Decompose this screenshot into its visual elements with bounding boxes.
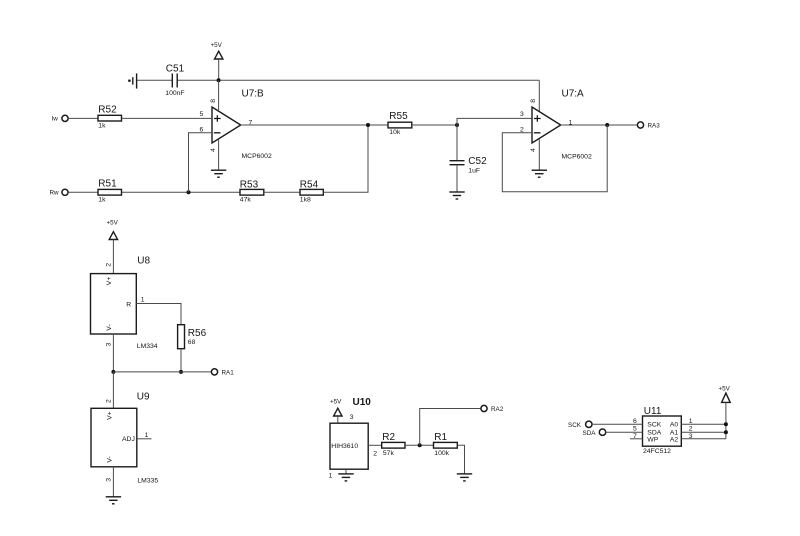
node Rw input terminal	[50, 189, 69, 196]
svg-text:WP: WP	[647, 436, 658, 443]
svg-text:2: 2	[106, 399, 113, 403]
svg-text:2: 2	[373, 450, 377, 457]
svg-text:R2: R2	[382, 432, 395, 443]
junction output U7:A	[605, 123, 609, 127]
ground (below C52)	[449, 192, 464, 199]
wire R54 to output node	[323, 125, 368, 192]
wire feedback loop U7:A	[502, 125, 607, 192]
svg-text:1uF: 1uF	[468, 168, 480, 175]
svg-text:MCP6002: MCP6002	[562, 153, 592, 160]
wire U8 bottom pin	[112, 334, 114, 372]
wire A0 to +5V	[681, 423, 726, 425]
svg-text:5: 5	[633, 426, 637, 433]
wire C52 node to U7:A pin3	[457, 118, 532, 125]
power +5V (U8 supply)	[107, 220, 119, 274]
node RA3 terminal	[637, 122, 660, 130]
IC U9 LM335	[91, 392, 158, 485]
svg-text:3: 3	[106, 478, 113, 482]
svg-text:68: 68	[188, 339, 196, 346]
wire U7:B lower supply to ground	[218, 139, 220, 170]
svg-text:+5V: +5V	[107, 220, 119, 227]
wire C51 right to U7:A supply	[177, 79, 539, 81]
svg-text:8: 8	[530, 99, 537, 103]
svg-text:U9: U9	[137, 392, 150, 403]
wire U7:A output	[561, 124, 638, 126]
svg-text:1k: 1k	[98, 197, 106, 204]
svg-text:2: 2	[689, 426, 693, 433]
wire RA1 rail	[113, 371, 211, 373]
wire U7:A power pin	[538, 80, 540, 112]
IC U10 HIH3610	[330, 397, 371, 469]
svg-text:Iw: Iw	[52, 115, 59, 122]
wire RA2 node up to terminal	[420, 409, 481, 446]
svg-text:R56: R56	[188, 328, 207, 339]
svg-text:R55: R55	[389, 111, 408, 122]
svg-text:100k: 100k	[434, 450, 449, 457]
ground (below R1)	[457, 474, 472, 481]
svg-text:RA1: RA1	[222, 369, 235, 376]
wire R51 to R53	[122, 191, 241, 193]
junction dot +5V rail	[217, 78, 221, 82]
svg-text:LM335: LM335	[137, 478, 158, 485]
svg-text:3: 3	[106, 343, 113, 347]
junction U8 bottom / RA1	[111, 370, 115, 374]
power +5V (top, U7:B supply)	[211, 42, 223, 80]
junction A0	[724, 422, 728, 426]
svg-text:U7:B: U7:B	[242, 89, 265, 100]
svg-text:C51: C51	[166, 64, 185, 75]
junction feedback node	[187, 190, 191, 194]
wire U8 to U9	[112, 372, 114, 408]
svg-text:A0: A0	[670, 422, 679, 429]
svg-text:8: 8	[210, 99, 217, 103]
wire Rw to R51	[68, 191, 98, 193]
resistor R56	[178, 325, 207, 349]
svg-text:RA2: RA2	[491, 406, 504, 413]
svg-text:2: 2	[520, 126, 524, 133]
svg-text:1k: 1k	[98, 123, 106, 130]
svg-text:3: 3	[350, 414, 354, 421]
op-amp U7:B	[210, 89, 272, 161]
svg-text:U10: U10	[353, 397, 372, 408]
wire U10 bottom pin to ground	[345, 469, 347, 474]
svg-text:1: 1	[329, 472, 333, 479]
wire A1 to +5V	[681, 431, 726, 433]
svg-text:V+: V+	[106, 277, 113, 286]
svg-text:U8: U8	[137, 256, 150, 267]
svg-text:V-: V-	[106, 456, 113, 462]
resistor R51	[98, 178, 122, 203]
svg-text:4: 4	[530, 148, 537, 152]
svg-text:HIH3610: HIH3610	[331, 443, 358, 450]
wire R52 to U7:B pin5	[122, 117, 213, 119]
junction output U7:B	[366, 123, 370, 127]
wire U7:A lower supply to ground	[538, 139, 540, 170]
resistor R52	[98, 104, 122, 129]
wire C52 node down	[456, 125, 458, 160]
svg-text:2: 2	[106, 263, 113, 267]
wire +5V rail horizontal	[137, 79, 172, 81]
svg-text:LM334: LM334	[137, 343, 158, 350]
node SCK terminal	[568, 421, 592, 429]
svg-text:A2: A2	[670, 436, 679, 443]
svg-text:ADJ: ADJ	[122, 436, 135, 443]
IC U11 24FC512	[643, 406, 682, 455]
wire SCK to U11	[592, 423, 643, 425]
resistor R53	[240, 179, 264, 203]
resistor R2	[382, 432, 405, 457]
svg-text:+5V: +5V	[330, 399, 342, 406]
junction C52 node	[455, 123, 459, 127]
wire U7:B output	[241, 124, 388, 126]
op-amp U7:A	[530, 89, 592, 161]
svg-text:R51: R51	[98, 178, 117, 189]
ground (below U10)	[338, 474, 353, 481]
svg-text:57k: 57k	[383, 450, 395, 457]
svg-text:R: R	[126, 301, 131, 308]
wire U7:B power pin	[218, 80, 220, 110]
wire Iw to R52	[68, 117, 98, 119]
svg-text:RA3: RA3	[648, 123, 661, 130]
IC U8 LM334	[91, 256, 158, 351]
svg-text:U7:A: U7:A	[562, 89, 585, 100]
ground (below U7:A)	[532, 170, 547, 177]
svg-text:V-: V-	[106, 324, 113, 330]
wire R53 to R54	[264, 191, 300, 193]
resistor R1	[434, 432, 458, 457]
svg-text:C52: C52	[468, 156, 487, 167]
svg-text:3: 3	[520, 111, 524, 118]
svg-text:R1: R1	[434, 432, 447, 443]
wire R2 to R1	[405, 444, 434, 446]
node Iw input terminal	[52, 115, 69, 122]
svg-text:SDA: SDA	[583, 430, 597, 437]
power +5V (U10 supply)	[330, 399, 342, 424]
junction A1	[724, 430, 728, 434]
node RA1 terminal	[211, 369, 234, 377]
svg-text:MCP6002: MCP6002	[242, 153, 272, 160]
svg-text:5: 5	[200, 111, 204, 118]
node SDA terminal	[583, 429, 606, 437]
wire U8 R pin to R56	[136, 304, 181, 325]
capacitor C51	[165, 64, 184, 98]
wire R56 to RA1 rail	[180, 349, 182, 372]
svg-text:47k: 47k	[240, 197, 252, 204]
wire feedback up to pin 6	[189, 133, 213, 193]
svg-text:SCK: SCK	[568, 422, 582, 429]
wire C52 to ground	[456, 165, 458, 192]
svg-text:SCK: SCK	[647, 422, 661, 429]
svg-text:Rw: Rw	[50, 189, 60, 196]
svg-text:1: 1	[141, 297, 145, 304]
wire U9 bottom to ground	[112, 467, 114, 497]
svg-text:V+: V+	[106, 411, 113, 420]
wire R55 to C52 node	[412, 124, 457, 126]
svg-text:4: 4	[210, 148, 217, 152]
node terminal left of C51	[128, 73, 136, 88]
svg-text:100nF: 100nF	[165, 90, 184, 97]
svg-text:R52: R52	[98, 104, 117, 115]
svg-text:+5V: +5V	[211, 42, 223, 49]
svg-text:+5V: +5V	[719, 386, 731, 393]
svg-text:10k: 10k	[389, 129, 401, 136]
node RA2 terminal	[481, 405, 504, 413]
resistor R54	[300, 179, 324, 203]
wire WP stub	[630, 438, 643, 440]
capacitor C52	[450, 156, 488, 175]
ground (below U9)	[106, 497, 121, 504]
svg-text:1: 1	[145, 432, 149, 439]
wire U10 pin2 to R2	[368, 444, 382, 446]
junction RA2 node	[418, 443, 422, 447]
power +5V (U11 supply)	[719, 386, 731, 439]
wire A2 to +5V	[681, 438, 726, 440]
wire R1 to ground	[457, 445, 464, 474]
junction R56 bottom / RA1	[179, 370, 183, 374]
svg-text:24FC512: 24FC512	[643, 448, 671, 455]
ground (below U7:B)	[211, 170, 226, 177]
resistor R55	[388, 111, 412, 136]
svg-text:1k8: 1k8	[300, 197, 311, 204]
wire U9 ADJ stub	[137, 438, 152, 440]
wire SDA to U11	[606, 431, 643, 433]
svg-text:6: 6	[200, 126, 204, 133]
